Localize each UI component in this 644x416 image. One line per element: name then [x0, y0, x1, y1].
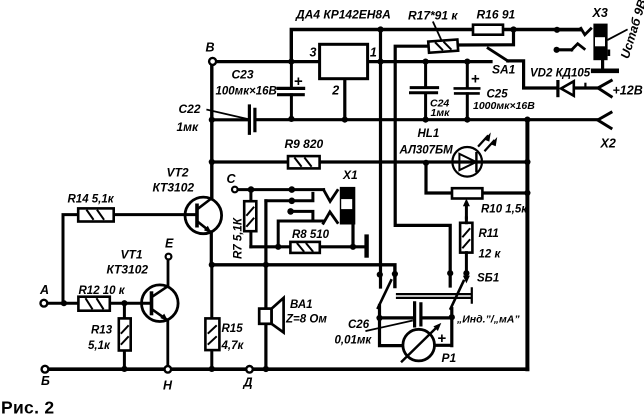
svg-text:R10 1,5к: R10 1,5к: [481, 204, 528, 216]
svg-text:ВА1: ВА1: [290, 299, 313, 311]
svg-text:12 к: 12 к: [479, 249, 502, 261]
wire: SB1 left pole to C26 and P1 left: [380, 306, 414, 346]
wire: middle rail from VT2 emitter to SB1 corner: [212, 265, 395, 287]
resistor R15 leads: [210, 265, 213, 369]
wire: C22 left lead from node B line: [212, 118, 248, 121]
capacitor C25 plates: [455, 88, 479, 93]
svg-text:4,7к: 4,7к: [221, 340, 245, 352]
svg-text:С23: С23: [232, 68, 254, 82]
wire: node B horizontal to regulator pin 3: [216, 60, 320, 63]
svg-text:R16 91: R16 91: [477, 8, 516, 22]
svg-text:ДА4 КР142ЕН8А: ДА4 КР142ЕН8А: [295, 8, 391, 22]
svg-text:Р1: Р1: [442, 351, 457, 365]
node D terminal: [246, 366, 253, 373]
wire: VT1 emitter down to node H: [166, 320, 169, 366]
resistor R13 leads: [123, 303, 126, 369]
svg-text:VD2 КД105: VD2 КД105: [530, 68, 591, 80]
svg-text:SБ1: SБ1: [477, 272, 499, 284]
wire: X1 body stem down: [351, 225, 354, 247]
resistor R10 wiper arrow: [465, 204, 468, 218]
wire: lower X3 switching contact stub: [557, 48, 572, 51]
svg-text:С: С: [227, 172, 237, 186]
svg-text:С22: С22: [179, 102, 201, 116]
wire: vertical line from node B down to VT2 collector: [210, 65, 213, 198]
resistor R11 body: [460, 223, 472, 253]
connector X1 lower contact: [323, 212, 337, 223]
wire: X1 row 2 with up hook: [266, 193, 313, 200]
resistor R11 bottom lead with SB1 arrow: [465, 218, 468, 277]
svg-text:1мк: 1мк: [177, 120, 200, 134]
wire: upper X3 switching contact feed: [557, 28, 581, 31]
svg-text:+: +: [471, 71, 480, 88]
svg-text:+: +: [294, 73, 303, 90]
svg-text:R9 820: R9 820: [285, 137, 324, 151]
resistor R9 body: [288, 156, 320, 168]
resistor R7 body: [244, 201, 256, 231]
resistor R17 body: [428, 39, 458, 52]
wire: vertical from top rail through pin1 node down to SB1 left contact: [379, 30, 382, 288]
connector X1 body: [340, 187, 356, 225]
pointer line to Ustab label: [608, 30, 627, 40]
resistor R13 body: [119, 318, 131, 350]
op-amp/regulator DA4 body: [320, 44, 368, 78]
wire: C25 top and bottom leads: [466, 62, 469, 120]
svg-text:Х1: Х1: [342, 168, 358, 182]
node A terminal: [41, 300, 48, 307]
resistor R7 leads: [249, 190, 252, 247]
svg-text:„Инд.”/„мА”: „Инд.”/„мА”: [456, 314, 520, 326]
svg-text:R13: R13: [91, 325, 113, 337]
wire: R14 left lead down to node A row, right lead to VT2 base: [63, 215, 195, 304]
wire: X1 row 4 down to R8 wire: [278, 221, 323, 247]
switch SA1 lever: [488, 48, 508, 61]
resistor R10 body (variable): [452, 188, 482, 198]
capacitor C23 leads: [290, 62, 293, 120]
resistor R15 body: [205, 318, 219, 350]
svg-text:1мк: 1мк: [431, 107, 451, 119]
svg-text:5,1к: 5,1к: [88, 340, 111, 352]
wire: node A row to VT1 base: [47, 302, 150, 305]
node B terminal: [209, 58, 216, 65]
svg-text:SА1: SА1: [492, 63, 516, 77]
svg-text:Б: Б: [41, 374, 50, 388]
wire: top supply rail from C23 corner to R16 and on to X3 contact: [291, 30, 581, 62]
resistor R12 body: [78, 297, 109, 311]
node H terminal: [165, 366, 172, 373]
transistor VT2: [185, 197, 222, 234]
capacitor C23 plates: [278, 88, 304, 94]
svg-text:Н: Н: [163, 379, 173, 393]
resistor R8 body: [290, 242, 319, 253]
capacitor C26 plates: [415, 303, 421, 326]
svg-text:R14 5,1к: R14 5,1к: [68, 194, 115, 206]
wire: node C row to X1 upper contact: [237, 188, 323, 191]
svg-text:R8 510: R8 510: [292, 229, 330, 241]
wire: R17 right lead bending up to top rail: [458, 30, 514, 46]
svg-text:С26: С26: [348, 319, 370, 331]
pointer line from C26 label: [366, 321, 412, 331]
loudspeaker BA1: [259, 309, 271, 324]
meter P1: [403, 329, 435, 361]
wire: SB1 right pole to C26 and P1 right: [422, 309, 452, 346]
capacitor C22 plates: [249, 106, 255, 133]
wire: R7/R8 row to X1 sleeve bar: [251, 245, 365, 248]
svg-text:3: 3: [310, 46, 317, 60]
wire: SA1 to VD2 anode path: [508, 61, 558, 88]
wire: loudspeaker branch vertical: [264, 201, 267, 369]
LED HL1: [452, 147, 482, 177]
pushbutton SB1 actuator bar: [397, 288, 472, 302]
svg-text:Рис. 2: Рис. 2: [1, 398, 54, 416]
svg-text:VT2: VT2: [167, 165, 189, 179]
pointer line from R17 label: [433, 22, 441, 39]
wire: regulator pin 2 ground stem: [343, 79, 346, 120]
svg-text:Е: Е: [165, 237, 174, 251]
small tick on +12V wire: [584, 84, 586, 88]
connector X3 sleeve stem and bar: [601, 60, 604, 68]
node E terminal: [166, 254, 172, 260]
connector X1 sleeve bar: [364, 237, 368, 256]
node C terminal: [232, 187, 238, 193]
svg-text:Z=8 Ом: Z=8 Ом: [285, 313, 327, 325]
wire: node E down to VT1 collector: [167, 259, 170, 285]
transistor VT1: [142, 285, 179, 322]
wire: right spine from common rail down to bottom rail: [525, 120, 529, 370]
diode VD2: [556, 82, 559, 96]
svg-text:VT1: VT1: [121, 248, 143, 262]
svg-text:R17*91 к: R17*91 к: [408, 9, 458, 23]
connector X3 lower contact: [572, 44, 585, 50]
svg-text:В: В: [206, 41, 215, 55]
connector X3 upper contact: [581, 28, 591, 34]
terminal arrow +12V: [598, 81, 611, 97]
terminal arrow X2: [598, 112, 611, 128]
svg-text:АЛ307БМ: АЛ307БМ: [399, 145, 454, 157]
wire: bottom common rail: [48, 367, 527, 371]
wire: common rail from C22 to X2 terminal: [256, 118, 597, 121]
svg-text:R11: R11: [479, 228, 499, 240]
node B(lower) terminal: [42, 366, 49, 373]
svg-text:КТ3102: КТ3102: [153, 181, 195, 195]
svg-text:R15: R15: [222, 323, 244, 335]
capacitor C24 plates: [411, 88, 438, 93]
connector X3 body: [593, 24, 607, 61]
resistor R14 body: [78, 208, 114, 221]
svg-text:0,01мк: 0,01мк: [335, 335, 373, 347]
svg-text:С25: С25: [487, 89, 509, 101]
wire: VD2 to +12V terminal: [574, 86, 599, 89]
svg-text:100мк×16В: 100мк×16В: [216, 86, 277, 98]
resistor R16 body: [473, 25, 503, 35]
svg-text:1: 1: [370, 46, 377, 60]
svg-text:R7 5,1К: R7 5,1К: [233, 217, 245, 259]
pushbutton SB1 levers: [378, 280, 464, 308]
svg-text:1000мк×16В: 1000мк×16В: [473, 100, 535, 112]
wire: R17 left lead bending down and over to SB1 right contact: [395, 46, 450, 286]
svg-text:+: +: [438, 330, 447, 347]
wire: C24 top and bottom leads: [424, 62, 427, 120]
pointer line from C22 label: [207, 110, 247, 119]
svg-text:Х3: Х3: [592, 6, 608, 20]
wire: R10 branch from HL1 anode node: [426, 163, 527, 193]
LED HL1 emission arrows: [479, 136, 488, 146]
svg-text:Д: Д: [243, 376, 253, 390]
svg-text:R12 10 к: R12 10 к: [79, 285, 126, 297]
svg-text:HL1: HL1: [418, 128, 440, 140]
svg-text:Х2: Х2: [600, 136, 616, 150]
wire: regulator pin 1 output to SA1 contact: [368, 60, 491, 63]
connector X1 upper contact: [324, 190, 338, 202]
svg-text:КТ3102: КТ3102: [107, 263, 149, 277]
svg-text:+12В: +12В: [613, 84, 643, 98]
wire: R9 / HL1 row at y162: [212, 160, 528, 163]
svg-text:2: 2: [331, 84, 339, 98]
wire: X1 row 3 with down hook: [291, 211, 313, 218]
svg-text:А: А: [39, 283, 49, 297]
